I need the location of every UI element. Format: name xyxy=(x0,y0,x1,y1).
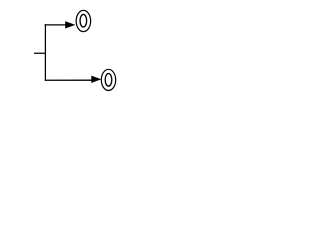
bottom node inner ellipse xyxy=(105,74,112,87)
top node outer ellipse xyxy=(76,10,91,31)
start stub wire xyxy=(34,52,46,54)
arrowhead to bottom node xyxy=(91,76,101,83)
bottom node outer ellipse xyxy=(101,69,115,90)
bottom branch wire xyxy=(45,79,93,81)
trunk wire xyxy=(44,24,46,81)
top branch wire xyxy=(45,24,67,26)
arrowhead to top node xyxy=(65,21,75,28)
background xyxy=(0,0,150,101)
top node inner ellipse xyxy=(80,14,87,27)
